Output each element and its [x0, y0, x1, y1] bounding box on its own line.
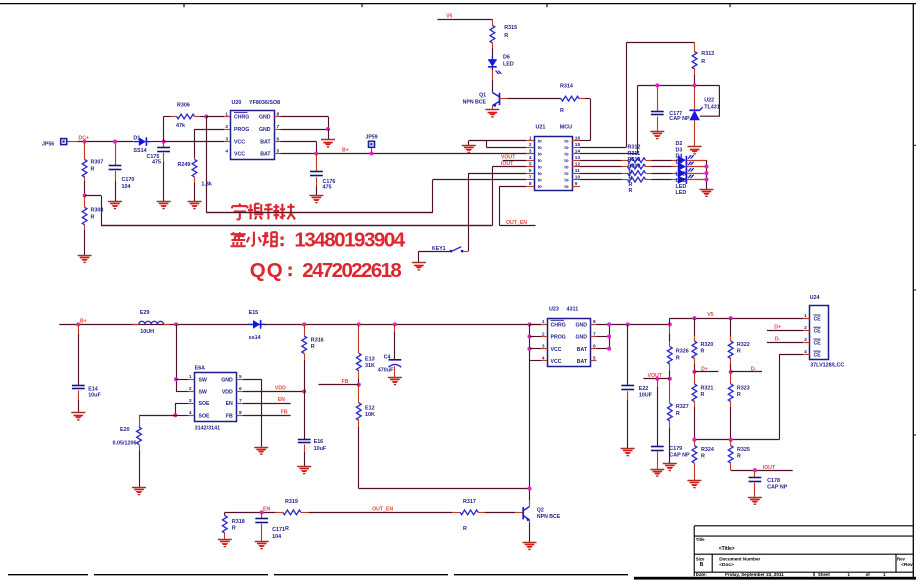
resistor R311 — [628, 164, 646, 169]
red text line2 phone — [232, 232, 234, 235]
svg-text:VCC: VCC — [551, 359, 562, 365]
svg-text:R: R — [737, 454, 741, 460]
wire DC+ horizontal — [78, 141, 134, 143]
svg-text:Title: Title — [696, 537, 705, 542]
svg-text:Io: Io — [538, 139, 542, 144]
wire IOUT sense long horizontal — [101, 225, 492, 227]
node R307/R308 tap — [83, 193, 87, 197]
svg-text:Io: Io — [564, 145, 568, 150]
node C177 junction — [655, 83, 659, 87]
wire R311 to LED D3 — [652, 166, 672, 168]
wire U21 pin4 VOUT — [503, 160, 526, 162]
connector JP56 — [60, 138, 68, 146]
svg-text:CE: CE — [814, 341, 822, 347]
resistor R325 — [730, 440, 732, 446]
IC U23 4311 — [548, 319, 591, 367]
svg-text:R320: R320 — [701, 342, 714, 348]
svg-text:PROG: PROG — [234, 127, 249, 133]
ground R327 — [663, 463, 677, 465]
svg-text:10UH: 10UH — [140, 329, 154, 335]
svg-text:LED: LED — [676, 190, 687, 196]
LED D6 — [488, 59, 497, 61]
svg-text:VOUT: VOUT — [648, 373, 663, 379]
transistor Q1 NPN BCE — [499, 93, 501, 105]
E6A pin stubs right — [237, 379, 243, 381]
node C179 junction — [655, 377, 659, 381]
svg-text:Io: Io — [564, 178, 568, 183]
capacitor E22 10UF — [627, 324, 629, 386]
svg-text:FB: FB — [226, 413, 233, 419]
svg-text:D+: D+ — [774, 325, 781, 331]
svg-text:13480193904: 13480193904 — [294, 229, 405, 252]
ground U21 pin1 — [462, 145, 476, 147]
svg-text:R: R — [285, 526, 289, 532]
svg-text:VDD: VDD — [275, 386, 286, 392]
LED D4 — [678, 169, 686, 178]
wire C175 node to R249 region to U20 pin3 — [164, 141, 224, 143]
resistor R323 — [730, 372, 732, 384]
resistor R249 1.3k PROG — [194, 129, 196, 158]
svg-text:NPN BCE: NPN BCE — [537, 514, 561, 520]
diode D1 SS14 — [139, 137, 146, 146]
svg-text:3: 3 — [225, 136, 228, 142]
resistor R322 — [730, 318, 732, 336]
resistor R308 — [84, 196, 86, 208]
svg-text:E22: E22 — [639, 386, 649, 392]
transistor Q2 NPN BCE — [522, 507, 524, 519]
node U20 gnd junction — [326, 127, 330, 131]
svg-text:Q Q: Q Q — [250, 259, 283, 282]
wire tap to IOUT sense line — [85, 195, 101, 197]
wire U20 pin6 BAT to B+ — [281, 141, 317, 143]
resistor R312 — [628, 158, 646, 163]
svg-text:R317: R317 — [463, 499, 476, 505]
resistor R318 — [224, 512, 226, 515]
capacitor C176 475 — [316, 154, 318, 172]
ground LED rail — [700, 189, 714, 191]
svg-text:EN: EN — [226, 401, 233, 407]
svg-text:R: R — [676, 355, 680, 361]
svg-text:R318: R318 — [232, 519, 245, 525]
wire E12 to Q2 collector net — [358, 427, 360, 489]
node C4 junction — [393, 322, 397, 326]
wire U21 pin14 to C177/U22 net — [580, 153, 638, 155]
svg-text:CE: CE — [814, 329, 822, 335]
wire U21 pin2 to pin1 net — [486, 147, 526, 149]
ground U22 anode — [694, 120, 696, 146]
svg-text:R249: R249 — [178, 162, 191, 168]
wire D+ net — [694, 371, 718, 373]
resistor R326 — [669, 324, 671, 334]
inductor E29 10UH — [132, 324, 139, 326]
svg-text:D5: D5 — [676, 160, 683, 166]
svg-text:D-: D- — [751, 367, 757, 373]
node D+ junction — [692, 370, 696, 374]
svg-text:R: R — [560, 108, 564, 114]
ground Q2 — [523, 542, 537, 544]
E6A pin stubs left — [188, 379, 194, 381]
wire E6A pin6 VDD — [243, 391, 304, 393]
wire B+ rail — [281, 153, 527, 155]
svg-text:Friday, September 23, 2011: Friday, September 23, 2011 — [725, 572, 784, 577]
wire D6 to Q1 collector — [492, 70, 494, 80]
svg-text:Io: Io — [564, 152, 568, 157]
svg-text:Q1: Q1 — [479, 93, 486, 99]
wire OUT_EN net — [309, 512, 453, 514]
svg-text:E29: E29 — [140, 310, 150, 316]
svg-text:R327: R327 — [676, 404, 689, 410]
svg-text:R308: R308 — [91, 208, 104, 214]
svg-text:D3: D3 — [676, 147, 683, 153]
wire U21 pin8 OUT_EN — [500, 186, 526, 188]
svg-text:<Rev: <Rev — [901, 562, 913, 568]
wire D- net — [731, 371, 762, 373]
svg-text:GND: GND — [575, 323, 587, 329]
wire EN net — [225, 512, 275, 514]
svg-text:R322: R322 — [737, 342, 750, 348]
svg-text:C4: C4 — [384, 355, 391, 361]
svg-text:B+: B+ — [80, 318, 87, 324]
svg-text:YF8036/SO8: YF8036/SO8 — [249, 100, 280, 106]
svg-text:GND: GND — [259, 115, 271, 121]
wire FB net — [319, 384, 359, 386]
svg-text:U23: U23 — [549, 307, 559, 313]
svg-text:Io: Io — [538, 178, 542, 183]
svg-text:U21: U21 — [536, 125, 546, 131]
wire U21 pin6 to KEY1 — [468, 173, 526, 175]
svg-text:IOUT: IOUT — [763, 465, 776, 471]
svg-text:R313: R313 — [701, 51, 714, 57]
svg-text:2472022618: 2472022618 — [302, 259, 402, 282]
ground C178 — [748, 497, 762, 499]
svg-text:CHRG: CHRG — [551, 323, 566, 329]
svg-text:SW: SW — [199, 377, 207, 383]
svg-text:B+: B+ — [342, 148, 349, 154]
svg-text:CAP NP: CAP NP — [669, 453, 690, 459]
wire U23 pins 7/6 tie — [597, 336, 610, 338]
resistor R317 — [452, 512, 460, 514]
wire U24 pin4 to lower cross net — [779, 354, 803, 356]
wire R312 to LED D2 — [652, 160, 672, 162]
resistor R313 — [694, 42, 696, 51]
svg-text:470uF: 470uF — [378, 367, 394, 373]
node VOUT junction — [668, 377, 672, 381]
svg-text:D+: D+ — [701, 367, 708, 373]
wire Q2 emitter to ground — [529, 520, 531, 523]
svg-text:SW: SW — [199, 390, 207, 396]
node VDD junction — [302, 389, 306, 393]
svg-text:R309: R309 — [628, 163, 641, 169]
svg-text:GND: GND — [575, 335, 587, 341]
svg-text:U20: U20 — [232, 100, 242, 106]
svg-text:LED: LED — [676, 184, 687, 190]
node E13 junction — [357, 322, 361, 326]
wire Q1 base to R314 — [500, 98, 508, 100]
svg-text:CE: CE — [814, 353, 822, 359]
wire U21 pin12 to R311 — [580, 166, 622, 168]
wire R309 to LED D5 — [652, 179, 672, 181]
svg-text:R315: R315 — [504, 25, 517, 31]
resistor R324 — [694, 440, 696, 446]
node U23 left junction — [527, 322, 531, 326]
svg-text:CHRG: CHRG — [234, 115, 249, 121]
svg-text:U24: U24 — [810, 295, 820, 301]
wire IOUT net — [731, 470, 793, 472]
svg-text:37LV128/LCC: 37LV128/LCC — [810, 362, 844, 368]
svg-text:EN: EN — [263, 506, 270, 512]
node R313/U22 junction — [693, 83, 697, 87]
wire LED D4 cathode — [686, 173, 706, 175]
svg-text:0.05/1206: 0.05/1206 — [113, 440, 137, 446]
svg-text:R306: R306 — [177, 102, 190, 108]
node E14 junction — [76, 322, 80, 326]
svg-text:E16: E16 — [314, 439, 324, 445]
wire U20 GND pins loop — [281, 116, 329, 118]
svg-text:GND: GND — [221, 377, 233, 383]
wire B+ bottom rail — [59, 324, 541, 326]
svg-text:VCC: VCC — [551, 347, 562, 353]
resistor R309 — [628, 177, 646, 182]
svg-text:B: B — [700, 562, 704, 568]
svg-text:V5: V5 — [707, 312, 713, 318]
svg-text:D6: D6 — [503, 54, 510, 60]
wire LED D2 cathode — [686, 160, 706, 162]
svg-text:V5: V5 — [446, 13, 452, 19]
svg-text:FB: FB — [281, 409, 288, 415]
svg-text:R: R — [463, 526, 467, 532]
ground C175 — [157, 201, 171, 203]
svg-text:R326: R326 — [676, 349, 689, 355]
svg-text:LED: LED — [503, 62, 514, 68]
svg-text:D2: D2 — [676, 141, 683, 147]
svg-text:R: R — [629, 170, 633, 176]
svg-text:4311: 4311 — [567, 307, 579, 313]
svg-text:VDD: VDD — [222, 390, 233, 396]
resistor R310 — [628, 171, 646, 176]
svg-text:Io: Io — [564, 165, 568, 170]
svg-text:MCU: MCU — [560, 125, 572, 131]
svg-text:Size: Size — [696, 556, 705, 561]
resistor R321 — [694, 372, 696, 384]
wire R314 to U21 pin16 — [590, 99, 592, 141]
wire U24 pin2 D+ — [767, 330, 803, 332]
wire E6A pin7 EN — [243, 403, 291, 405]
wire U23 right rail — [597, 324, 670, 326]
capacitor C178 CAP NP — [754, 470, 756, 477]
wire E6A pin5 GND — [243, 379, 261, 381]
resistor R306 47k — [164, 116, 171, 118]
node EN junction — [260, 510, 264, 514]
capacitor C171 104 — [261, 512, 263, 518]
svg-text:104: 104 — [272, 534, 281, 540]
capacitor E14 10uF — [78, 324, 80, 334]
svg-text:SOE: SOE — [199, 401, 210, 407]
svg-text:D-: D- — [775, 336, 781, 342]
U21 left pin stubs — [526, 140, 534, 142]
svg-text:R: R — [629, 188, 633, 194]
ground E20 — [132, 487, 146, 489]
sheet top border — [0, 3, 916, 5]
ground R318 — [218, 539, 232, 541]
wire E6A pin8 FB — [243, 415, 291, 417]
LED D3 — [678, 162, 686, 171]
node C178 junction — [753, 468, 757, 472]
ground Q1 emitter — [492, 106, 494, 110]
svg-text:R: R — [504, 33, 508, 39]
svg-text:Io: Io — [564, 158, 568, 163]
LED D5 — [678, 175, 686, 184]
svg-text:R314: R314 — [560, 84, 573, 90]
resistor E12 10K — [358, 385, 360, 403]
IC U20 YF8036/SO8 charger — [231, 111, 275, 160]
svg-text:1: 1 — [225, 111, 228, 117]
svg-text:C170: C170 — [122, 177, 135, 183]
ground E6A — [254, 447, 268, 449]
svg-text:R316: R316 — [311, 337, 324, 343]
capacitor C179 CAP NP — [657, 379, 659, 387]
svg-text:R324: R324 — [701, 447, 714, 453]
svg-text:FB: FB — [342, 379, 349, 385]
svg-text:Io: Io — [564, 139, 568, 144]
svg-text:OUT_EN: OUT_EN — [372, 506, 393, 512]
node C175/R306 junction — [162, 140, 166, 144]
svg-text:R321: R321 — [701, 386, 714, 392]
svg-text:R: R — [91, 167, 95, 173]
node R306/pin1/CHRG-sense junction — [204, 114, 208, 118]
svg-text:R: R — [737, 349, 741, 355]
resistor E13 31K — [358, 324, 360, 353]
svg-text:C178: C178 — [767, 478, 780, 484]
wire E6A pin2 connect — [176, 391, 188, 393]
svg-text:R: R — [676, 411, 680, 417]
shunt reference U22 TL431 — [694, 85, 696, 110]
svg-text:Io: Io — [538, 158, 542, 163]
svg-text:E15: E15 — [249, 310, 259, 316]
svg-text:R319: R319 — [285, 499, 298, 505]
wire R317 to Q2 base — [485, 512, 515, 514]
svg-text:R312: R312 — [628, 145, 641, 151]
ground C4 — [388, 377, 402, 379]
svg-text:CAP NP: CAP NP — [767, 485, 788, 491]
svg-text:Io: Io — [538, 145, 542, 150]
ground R249 — [188, 201, 202, 203]
svg-text:R323: R323 — [737, 386, 750, 392]
capacitor C177 CAP NP — [657, 85, 659, 111]
svg-text:2: 2 — [225, 124, 228, 130]
svg-text:Io: Io — [564, 184, 568, 189]
svg-text:R: R — [232, 526, 236, 532]
svg-text:BAT: BAT — [260, 152, 271, 158]
node R324 junction — [692, 438, 696, 442]
svg-text:R: R — [311, 344, 315, 350]
svg-text:GND: GND — [259, 127, 271, 133]
svg-text:BAT: BAT — [577, 347, 588, 353]
capacitor E16 10uF — [304, 391, 306, 439]
svg-text:IOUT: IOUT — [501, 161, 514, 167]
svg-text:10K: 10K — [365, 412, 375, 418]
IC E6A 3142/3141 buck — [195, 373, 237, 422]
sense resistor E20 0.05/1206 — [139, 415, 141, 427]
svg-text:Sheet: Sheet — [818, 572, 830, 577]
node Q2/E12 junction — [527, 487, 531, 491]
svg-text:Io: Io — [538, 152, 542, 157]
svg-text:R: R — [737, 392, 741, 398]
node E6A pin1 junction — [174, 377, 178, 381]
ground U20 — [321, 139, 335, 141]
svg-text:SS14: SS14 — [133, 148, 146, 154]
svg-text:3142/3141: 3142/3141 — [195, 426, 220, 432]
svg-text:47k: 47k — [176, 123, 185, 129]
ground C171 — [255, 541, 269, 543]
svg-text:SOE: SOE — [199, 413, 210, 419]
node E22 junction — [626, 322, 630, 326]
svg-text:D4: D4 — [676, 153, 683, 159]
svg-text:VCC: VCC — [234, 152, 245, 158]
svg-text:D1: D1 — [133, 136, 140, 142]
svg-text:E6A: E6A — [195, 365, 206, 371]
svg-text:3: 3 — [189, 398, 192, 404]
svg-text:Q2: Q2 — [537, 507, 544, 513]
wire E29 node down to E6A SW pins — [176, 324, 178, 391]
svg-text:Io: Io — [538, 165, 542, 170]
wire U21 pin1 to ground — [469, 140, 526, 142]
svg-text:104: 104 — [122, 184, 131, 190]
wire LED D3 cathode — [686, 166, 706, 168]
resistor R315 — [492, 19, 494, 25]
capacitor C175 — [163, 142, 165, 148]
node R322 top junction — [729, 316, 733, 320]
ground E16 — [297, 466, 311, 468]
svg-text:C179: C179 — [669, 446, 682, 452]
wire U24 pin3 D- — [767, 342, 803, 344]
sheet right border — [912, 4, 914, 579]
ground E22 — [621, 448, 635, 450]
wire U23 pin4 to Q2 collector — [530, 360, 542, 362]
svg-text:<Doc>: <Doc> — [719, 562, 734, 568]
svg-text:R: R — [91, 215, 95, 221]
wire lower cross net — [694, 439, 779, 441]
svg-text:E14: E14 — [88, 386, 98, 392]
wire node up to R306 — [163, 117, 165, 142]
LED D2 — [678, 156, 686, 165]
svg-text:JP56: JP56 — [42, 141, 54, 147]
U20 pin stubs — [274, 116, 281, 118]
svg-text:Io: Io — [564, 171, 568, 176]
wire U21 pin5 IOUT to sense line — [492, 166, 526, 168]
svg-text:LED: LED — [676, 172, 687, 178]
resistor R314 — [561, 96, 579, 101]
svg-text:VCC: VCC — [234, 140, 245, 146]
svg-text:1.3k: 1.3k — [201, 181, 212, 187]
node JP59 junction — [369, 151, 373, 155]
red text line1 ningwei keji — [239, 204, 241, 205]
wire crossing red text upper — [206, 212, 432, 214]
resistor R307 — [84, 142, 86, 160]
ground R324 — [687, 480, 701, 482]
node R320 top junction — [692, 316, 696, 320]
svg-text:Io: Io — [538, 184, 542, 189]
svg-text:LED: LED — [676, 178, 687, 184]
wire R310 to LED D4 — [652, 173, 672, 175]
svg-text:R: R — [701, 59, 705, 65]
wire U21 pin13 to R312 — [580, 160, 622, 162]
wire LED cathode rail — [706, 160, 708, 189]
U23 pin stubs — [541, 324, 547, 326]
svg-text:CE: CE — [814, 316, 822, 322]
svg-text:R311: R311 — [628, 151, 641, 157]
node DC+ junction R307 — [83, 140, 87, 144]
net label DC+ — [68, 141, 79, 143]
